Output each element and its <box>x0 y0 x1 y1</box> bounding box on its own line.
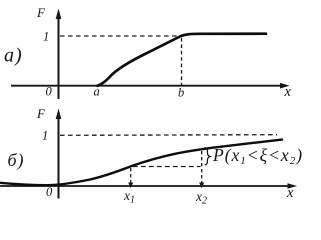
dashed vertical at x1 <box>130 168 132 183</box>
arrow dot at x2 on axis <box>199 183 204 189</box>
svg-text:F: F <box>36 106 46 121</box>
brace for probability interval <box>205 148 210 165</box>
svg-text:1: 1 <box>42 129 48 143</box>
svg-text:а): а) <box>4 45 23 67</box>
dashed level-1 line (bottom plot) <box>60 134 277 137</box>
x-axis arrowhead (bottom plot) <box>288 183 298 189</box>
svg-text:x: x <box>284 84 292 100</box>
y-axis arrowhead (bottom plot) <box>56 109 62 120</box>
svg-text:0: 0 <box>46 185 53 199</box>
dashed vertical at x2 <box>201 151 203 183</box>
x-axis (top plot) <box>11 85 281 87</box>
y-axis arrowhead (top plot) <box>56 9 62 20</box>
svg-text:б): б) <box>8 150 25 171</box>
y-axis (top plot) <box>58 14 60 99</box>
dashed level-1 line (top plot) <box>60 35 181 37</box>
svg-text:P(x1<ξ<x2): P(x1<ξ<x2) <box>212 145 303 167</box>
svg-text:0: 0 <box>46 85 53 99</box>
svg-text:b: b <box>178 86 184 100</box>
y-axis (bottom plot) <box>58 114 60 199</box>
svg-text:a: a <box>94 85 100 99</box>
arrow dot at x1 on axis <box>128 183 133 189</box>
CDF curve (top plot) <box>98 34 267 86</box>
x-axis (bottom plot) <box>0 185 289 187</box>
x-axis arrowhead (top plot) <box>280 83 290 89</box>
svg-text:1: 1 <box>43 30 49 44</box>
CDF curve (bottom plot) <box>0 140 282 186</box>
dashed vertical at b (top plot) <box>181 38 183 85</box>
dashed F(x1) level line <box>133 166 201 168</box>
svg-text:F: F <box>36 5 46 20</box>
svg-text:x: x <box>286 185 294 201</box>
